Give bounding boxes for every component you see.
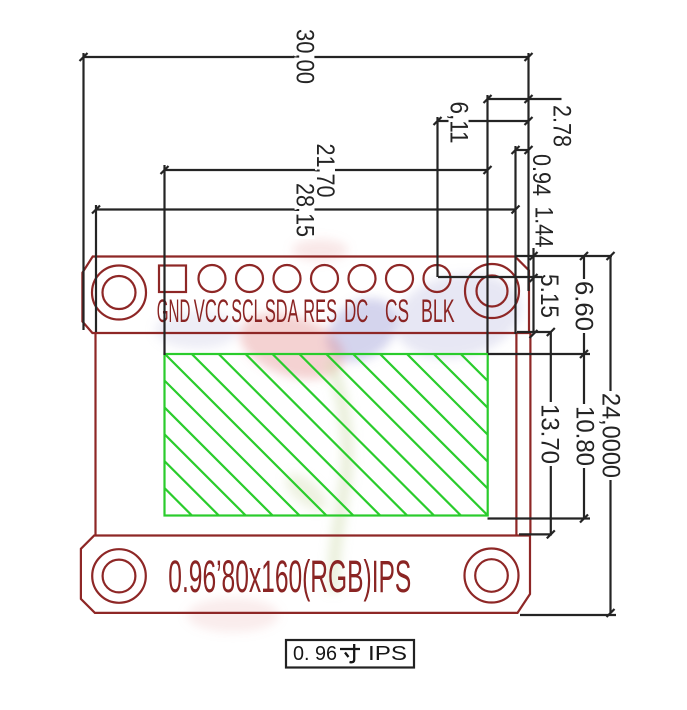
- svg-text:VCC: VCC: [194, 293, 229, 329]
- dim line 6.60/10.80: [583, 256, 585, 519]
- pin pad GND (square): [159, 266, 186, 293]
- svg-text:30,00: 30,00: [290, 29, 318, 84]
- dim line 6.11: [438, 120, 529, 122]
- dim line 30.00: [84, 56, 529, 58]
- dim text 30,00: [290, 27, 318, 86]
- dim extension display bottom right: [488, 517, 591, 519]
- svg-text:6,11: 6,11: [445, 102, 473, 144]
- dim text 5.15: [535, 274, 563, 318]
- svg-text:BLK: BLK: [421, 293, 455, 329]
- dim text 0.94: [527, 154, 555, 196]
- dim extension board bottom right: [520, 614, 616, 616]
- dim extension 28.15 left: [95, 205, 97, 332]
- dim extension 21.70 left: [163, 165, 165, 355]
- dim extension 0.94/28.15 right: [514, 146, 516, 334]
- svg-text:DC: DC: [344, 293, 368, 329]
- svg-text:13.70: 13.70: [536, 404, 564, 464]
- dim text 13.70: [536, 402, 564, 466]
- mounting hole top-left: [92, 266, 146, 320]
- caption box: [286, 640, 414, 668]
- display active area (green hatched): [0, 179, 662, 529]
- svg-text:28,15: 28,15: [291, 183, 319, 237]
- svg-text:5.15: 5.15: [535, 274, 563, 318]
- svg-text:6.60: 6.60: [570, 281, 598, 331]
- svg-text:10.80: 10.80: [570, 406, 598, 466]
- pin hole SCL: [236, 265, 263, 292]
- svg-text:0.94: 0.94: [527, 154, 555, 196]
- mounting hole top-right: [465, 264, 519, 318]
- svg-text:RES: RES: [303, 293, 337, 329]
- pin hole VCC: [199, 265, 226, 292]
- svg-text:1.44: 1.44: [530, 207, 558, 248]
- dim extension display top right: [488, 353, 590, 355]
- pin hole SDA: [274, 265, 301, 292]
- dim extension 30.00 left: [82, 53, 84, 330]
- caption glyph cun (drawn): [340, 644, 360, 662]
- PCB body right edge: [515, 333, 517, 536]
- pin hole CS: [386, 265, 413, 292]
- dim text 28,15: [291, 181, 319, 239]
- dim extension 2.78/21.70 right: [486, 95, 488, 353]
- mounting hole bottom-left: [92, 549, 146, 603]
- pin hole BLK: [424, 265, 451, 292]
- svg-text:24,0000: 24,0000: [597, 393, 625, 478]
- dim line 21.70: [165, 169, 488, 171]
- dim text 24,0000: [597, 391, 625, 480]
- dim line 0.94: [516, 149, 529, 151]
- dim text 10.80: [570, 404, 598, 468]
- dim line 24.0000: [609, 256, 611, 613]
- pin hole DC: [349, 265, 376, 292]
- mounting hole bottom-right: [465, 549, 519, 603]
- dim text 6.60: [570, 279, 598, 333]
- dim extension 30.00/0.94 right: [527, 53, 529, 291]
- svg-text:CS: CS: [385, 293, 409, 329]
- svg-text:0. 96: 0. 96: [293, 643, 337, 665]
- dim line 13.70: [550, 332, 552, 534]
- dim extension board top right: [515, 255, 612, 257]
- dim text 6,11: [445, 100, 473, 146]
- svg-text:IPS: IPS: [368, 643, 407, 665]
- PCB top header strip outline: [82, 257, 529, 334]
- dim text 1.44: [530, 207, 558, 248]
- watermark flower logo: [155, 239, 529, 632]
- PCB bottom strip outline: [81, 536, 530, 613]
- dim line 2.78: [488, 98, 562, 100]
- dim text 21,70: [311, 142, 339, 200]
- display glass right edge: [529, 333, 531, 536]
- svg-text:2.78: 2.78: [548, 105, 576, 147]
- dim extension glass top right: [517, 331, 552, 333]
- pin hole RES: [311, 265, 338, 292]
- svg-text:0.96’80x160(RGB)IPS: 0.96’80x160(RGB)IPS: [168, 551, 411, 602]
- dim extension glass bottom right: [519, 533, 552, 535]
- dim text 2.78: [548, 105, 576, 147]
- dim line 28.15: [96, 208, 516, 210]
- svg-text:SCL: SCL: [231, 293, 262, 329]
- dim extension 6.11 left: [436, 117, 438, 277]
- dimension end ticks: [80, 53, 88, 61]
- svg-text:SDA: SDA: [265, 293, 299, 329]
- svg-text:GND: GND: [157, 293, 191, 329]
- dim line 1.44/5.15: [532, 248, 534, 334]
- PCB body left edge: [94, 333, 96, 536]
- dim extension pin row centerline: [438, 276, 542, 278]
